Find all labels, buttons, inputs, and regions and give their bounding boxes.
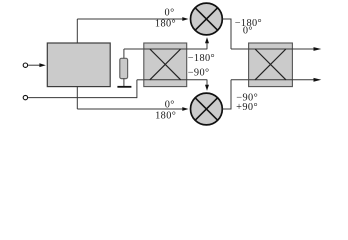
hybrid coupler U2 (90-degree hybrid) [144,43,187,87]
arrowhead into mixer M2 [182,107,188,111]
wire bottom RF run to mixer M2 [77,108,183,110]
ground [117,86,131,88]
wire U1 top tap riser [76,19,78,43]
wire R1 top lead [123,49,125,58]
terminal P2 (lower input port) [23,95,27,99]
arrowhead into splitter [39,63,45,67]
mixer M2 (lower) [191,93,223,125]
resistor R1 (termination) [120,58,128,78]
wire P2 riser [136,80,138,98]
svg-text:180°: 180° [155,111,176,122]
svg-text:0°: 0° [165,100,175,111]
arrowhead upper output [314,47,322,51]
wire R1 bottom lead [123,79,125,87]
wire U3 upper output [292,48,314,50]
wire mixer M2 output to hybrid U3 [223,108,231,110]
wire P1 to splitter input [28,64,41,66]
arrowhead down into mixer M2 [205,85,209,91]
svg-text:0°: 0° [165,7,175,18]
block U1 (input splitter) [47,43,110,87]
svg-text:180°: 180° [155,18,176,29]
arrowhead lower output [314,78,322,82]
wire U3 lower output [292,79,314,81]
svg-text:−180°: −180° [188,53,215,64]
wire P2 into hybrid U2 lower port [137,79,144,81]
wire top RF run to mixer M1 [77,18,183,20]
svg-text:0°: 0° [243,26,253,37]
arrowhead up into mixer M1 [205,37,209,43]
svg-text:−90°: −90° [188,68,210,79]
svg-text:+90°: +90° [236,102,258,113]
hybrid coupler U3 (output combiner) [249,43,293,87]
arrowhead into mixer M1 [182,17,188,21]
terminal P1 (upper input port) [23,63,27,67]
wire P2 horizontal run [28,97,137,99]
wire U1 bottom tap riser [76,86,78,109]
wire U2 upper output to mixer M1 LO [187,48,207,50]
wire R1 to hybrid U2 upper port [124,48,144,50]
wire mixer M1 output to hybrid U3 [223,18,231,20]
wire U2 lower output to mixer M2 LO [187,79,207,81]
mixer M1 (upper) [191,3,223,35]
